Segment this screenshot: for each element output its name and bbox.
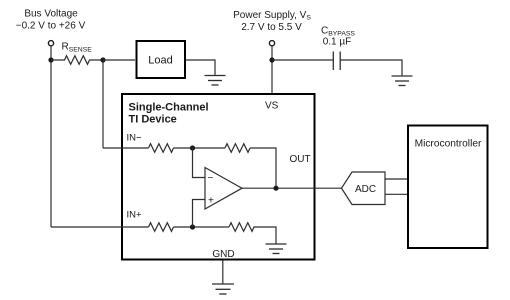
svg-text:OUT: OUT — [290, 154, 311, 165]
svg-text:−0.2 V to +26 V: −0.2 V to +26 V — [16, 21, 86, 32]
resistor: IN+ input resistor — [149, 223, 174, 232]
junction: output node — [273, 186, 278, 191]
wire: feedback resistor to output node — [250, 148, 276, 188]
svg-text:0.1 µF: 0.1 µF — [323, 37, 352, 48]
svg-text:Load: Load — [148, 55, 172, 67]
wire: node B down to IN- line — [102, 60, 104, 148]
wire: node B to Load box — [103, 59, 135, 61]
svg-text:Single-Channel: Single-Channel — [129, 102, 209, 114]
svg-text:Power Supply, VS: Power Supply, VS — [233, 10, 311, 22]
svg-text:IN−: IN− — [127, 133, 143, 144]
label RSENSE — [62, 42, 93, 54]
op-amp U1A — [205, 168, 242, 210]
wire: reference resistor to internal ground — [254, 227, 277, 244]
wire: IN- line into input resistor — [103, 147, 149, 149]
ground: device GND — [212, 284, 234, 294]
junction: VS node — [269, 57, 274, 62]
ground: load ground — [205, 76, 226, 86]
svg-text:VS: VS — [265, 101, 279, 112]
resistor: feedback resistor — [225, 144, 250, 153]
label CBYPASS 0.1 uF — [321, 26, 355, 48]
wire: ADC to microcontroller bus line 2 — [385, 193, 407, 195]
wire: power terminal down to VS pin — [271, 46, 273, 93]
svg-text:Microcontroller: Microcontroller — [415, 138, 482, 149]
wire: VS node to capacitor — [272, 59, 333, 61]
Load box — [137, 41, 186, 78]
svg-text:IN+: IN+ — [127, 210, 143, 221]
wire: ADC to microcontroller bus line 1 — [385, 178, 407, 180]
Microcontroller box — [408, 126, 488, 249]
ground: bypass ground — [392, 76, 413, 86]
junction: non-inverting input node — [190, 224, 195, 229]
wire: resistor to inverting node — [174, 147, 226, 149]
ground: internal device ground — [266, 244, 287, 254]
svg-text:−: − — [208, 173, 214, 184]
resistor RSENSE — [51, 56, 103, 65]
wire: IN+ line into input resistor — [51, 226, 149, 228]
capacitor CBYPASS — [333, 52, 340, 71]
junction: bus node A — [48, 57, 53, 62]
wire: non-inverting node up to op-amp plus input — [193, 200, 206, 228]
node label: Bus Voltage — [16, 9, 86, 32]
wire: Load box to ground — [186, 60, 215, 76]
svg-text:Bus Voltage: Bus Voltage — [24, 9, 78, 20]
svg-text:GND: GND — [212, 249, 234, 260]
resistor: IN- input resistor — [149, 144, 174, 153]
wire: GND pin to ground — [222, 260, 224, 284]
device box U1: Single-Channel TI Device — [122, 94, 315, 260]
ADC block — [342, 172, 386, 205]
junction: inverting input node — [190, 145, 195, 150]
node label: Power Supply VS — [233, 10, 311, 33]
svg-text:2.7 V to 5.5 V: 2.7 V to 5.5 V — [241, 22, 302, 33]
junction: load node B — [100, 57, 105, 62]
svg-text:TI Device: TI Device — [129, 114, 177, 126]
wire: inverting node down to op-amp minus input — [193, 148, 206, 178]
wire: op-amp output to ADC — [242, 187, 342, 189]
terminal: power supply input — [269, 41, 274, 46]
wire: bus rail vertical (terminal to IN+ corner) — [50, 46, 52, 227]
svg-text:ADC: ADC — [355, 184, 376, 195]
resistor: reference resistor to ground — [229, 223, 254, 232]
svg-text:+: + — [208, 196, 214, 207]
terminal: bus voltage input — [48, 41, 53, 46]
wire: resistor to non-inverting node — [174, 226, 230, 228]
wire: capacitor to bypass ground — [340, 60, 402, 76]
